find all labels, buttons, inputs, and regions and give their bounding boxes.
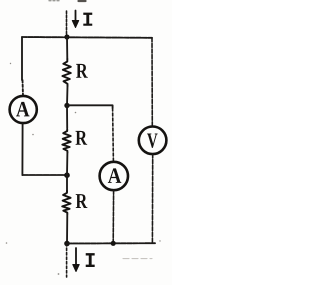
wire: main vertical segment 4 (66, 153, 68, 192)
node: left return junction (64, 172, 70, 178)
wire: right rail upper (151, 38, 153, 126)
resistor R1 (62, 59, 70, 86)
wire: main vertical segment 5 (66, 214, 68, 244)
node: middle branch junction (64, 103, 69, 108)
wire: top horizontal bus (22, 36, 152, 39)
wire: bottom exit vertical (dotted) (66, 244, 68, 278)
wire: left rail lower (21, 123, 23, 175)
wire: main vertical segment 1 (66, 37, 68, 59)
node: bottom-left junction (64, 241, 70, 247)
ammeter A2 (100, 162, 128, 190)
wire: branch vertical down to A2 (dashed) (112, 108, 115, 162)
wire: left rail upper (22, 37, 23, 96)
label I (bottom) (86, 253, 95, 267)
stray scan mark top-right (79, 0, 86, 2)
stray scan mark top-left (49, 0, 59, 2)
label R3 value (76, 194, 88, 208)
wire: branch horizontal to A2 (67, 105, 113, 108)
label R1 value (76, 64, 88, 78)
wire: main vertical segment 3 (66, 106, 68, 129)
wire: A2 to bottom bus (112, 190, 114, 243)
node: A2 bottom junction (111, 241, 116, 246)
node: top junction (64, 34, 69, 39)
wire: right rail lower (151, 154, 153, 243)
voltmeter V1 (139, 127, 167, 155)
label I (top) (83, 13, 92, 26)
ammeter A1 (10, 96, 37, 123)
wire: bottom horizontal bus (67, 242, 155, 244)
label R2 value (76, 131, 88, 145)
current arrow top (72, 11, 78, 28)
current arrow bottom (73, 248, 79, 272)
wire: main vertical segment 2 (66, 86, 69, 106)
scan speckles (6, 63, 161, 275)
resistor R2 (62, 129, 70, 153)
resistor R3 (62, 191, 70, 214)
wire: left return horizontal (22, 174, 67, 176)
scan artifact bottom-right (123, 258, 152, 260)
wire: top feed vertical (dotted upper) (66, 11, 68, 37)
